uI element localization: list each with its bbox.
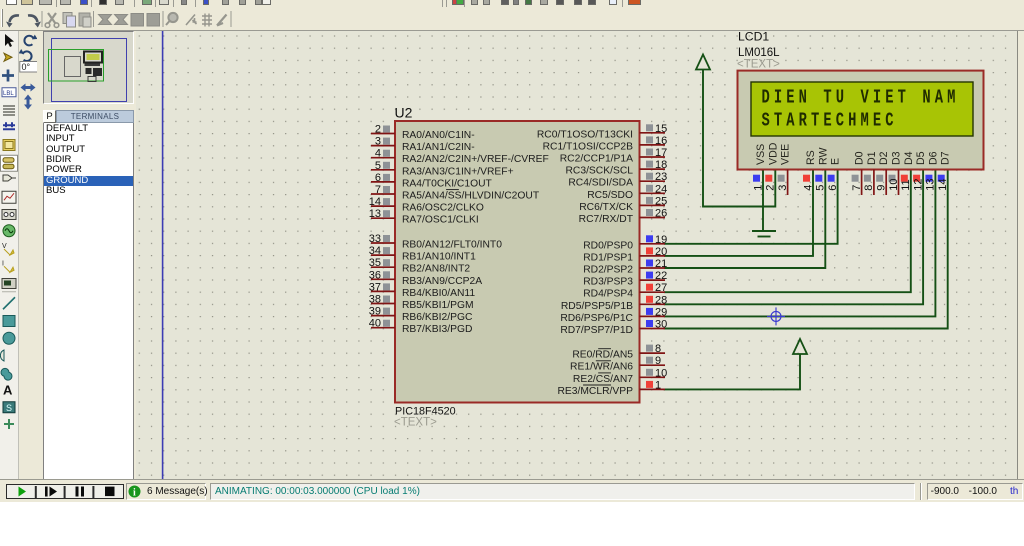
svg-text:1: 1 [752,185,764,191]
svg-text:33: 33 [369,233,381,245]
svg-text:9: 9 [655,355,661,367]
svg-text:LCD1: LCD1 [738,31,769,44]
svg-text:RD4/PSP4: RD4/PSP4 [583,289,633,300]
svg-text:RB7/KBI3/PGD: RB7/KBI3/PGD [402,324,472,335]
svg-text:23: 23 [655,171,667,183]
svg-text:RD0/PSP0: RD0/PSP0 [583,240,633,251]
svg-text:1: 1 [655,379,661,391]
svg-text:RC5/SDO: RC5/SDO [587,190,633,201]
svg-text:I: I [2,260,4,267]
svg-text:RB0/AN12/FLT0/INT0: RB0/AN12/FLT0/INT0 [402,240,502,251]
svg-text:17: 17 [655,147,667,159]
svg-text:RW: RW [817,148,829,165]
svg-text:<TEXT>: <TEXT> [737,59,780,71]
svg-text:LM016L: LM016L [738,47,780,59]
svg-text:30: 30 [655,319,667,331]
svg-text:RE2/CS/AN7: RE2/CS/AN7 [573,374,633,385]
svg-text:22: 22 [655,270,667,282]
svg-text:RB1/AN10/INT1: RB1/AN10/INT1 [402,252,476,263]
svg-text:RA2/AN2/C2IN+/VREF-/CVREF: RA2/AN2/C2IN+/VREF-/CVREF [402,154,549,165]
svg-text:A: A [3,383,13,398]
svg-text:38: 38 [369,294,381,306]
svg-text:34: 34 [369,245,381,257]
svg-text:D4: D4 [903,151,915,165]
svg-text:D0: D0 [854,151,866,165]
svg-text:6: 6 [375,172,381,184]
svg-text:RS: RS [805,150,817,165]
svg-text:RA0/AN0/C1IN-: RA0/AN0/C1IN- [402,130,475,141]
svg-text:RD3/PSP3: RD3/PSP3 [583,277,633,288]
svg-text:6: 6 [827,185,839,191]
svg-text:2: 2 [375,124,381,136]
svg-text:10: 10 [888,179,900,191]
svg-text:28: 28 [655,294,667,306]
svg-text:RE0/RD/AN5: RE0/RD/AN5 [572,350,633,361]
svg-text:14: 14 [369,196,381,208]
svg-text:RC6/TX/CK: RC6/TX/CK [579,202,633,213]
svg-text:15: 15 [655,123,667,135]
svg-text:RD1/PSP1: RD1/PSP1 [583,252,633,263]
svg-text:35: 35 [369,257,381,269]
svg-text:E: E [830,158,842,165]
svg-text:RB2/AN8/INT2: RB2/AN8/INT2 [402,264,470,275]
svg-text:RA5/AN4/SS/HLVDIN/C2OUT: RA5/AN4/SS/HLVDIN/C2OUT [402,191,540,202]
svg-text:36: 36 [369,269,381,281]
svg-text:39: 39 [369,306,381,318]
svg-text:RB6/KBI2/PGC: RB6/KBI2/PGC [402,312,473,323]
svg-text:V: V [2,243,7,250]
svg-text:RD2/PSP2: RD2/PSP2 [583,265,633,276]
svg-text:9: 9 [876,185,888,191]
svg-text:LBL: LBL [3,91,14,97]
svg-text:D7: D7 [940,151,952,165]
svg-text:5: 5 [375,160,381,172]
svg-text:<TEXT>: <TEXT> [394,417,437,429]
svg-text:0°: 0° [22,62,31,72]
svg-text:D5: D5 [915,151,927,165]
svg-text:RA4/T0CKI/C1OUT: RA4/T0CKI/C1OUT [402,178,493,189]
svg-text:U2: U2 [395,105,413,121]
svg-text:RB3/AN9/CCP2A: RB3/AN9/CCP2A [402,276,482,287]
svg-text:VEE: VEE [780,144,792,165]
svg-text:26: 26 [655,208,667,220]
svg-text:4: 4 [802,185,814,191]
svg-text:18: 18 [655,159,667,171]
svg-text:8: 8 [863,185,875,191]
svg-text:RC0/T1OSO/T13CKI: RC0/T1OSO/T13CKI [537,129,633,140]
svg-text:16: 16 [655,135,667,147]
svg-text:7: 7 [375,184,381,196]
svg-text:RC3/SCK/SCL: RC3/SCK/SCL [565,166,633,177]
svg-text:RD6/PSP6/P1C: RD6/PSP6/P1C [560,313,633,324]
svg-text:D2: D2 [878,151,890,165]
svg-text:29: 29 [655,306,667,318]
svg-text:STARTECHMEC: STARTECHMEC [762,111,898,133]
svg-text:24: 24 [655,183,667,195]
svg-text:RE1/WR/AN6: RE1/WR/AN6 [570,362,633,373]
svg-text:RD5/PSP5/P1B: RD5/PSP5/P1B [561,301,633,312]
svg-text:RA6/OSC2/CLKO: RA6/OSC2/CLKO [402,203,484,214]
svg-text:i: i [133,488,136,499]
svg-text:13: 13 [925,179,937,191]
svg-text:D1: D1 [866,151,878,165]
svg-text:14: 14 [937,179,949,191]
svg-text:13: 13 [369,208,381,220]
svg-text:19: 19 [655,234,667,246]
svg-text:3: 3 [375,136,381,148]
svg-text:40: 40 [369,318,381,330]
svg-text:RC7/RX/DT: RC7/RX/DT [579,214,634,225]
svg-text:RC2/CCP1/P1A: RC2/CCP1/P1A [560,154,633,165]
svg-text:20: 20 [655,246,667,258]
svg-text:27: 27 [655,282,667,294]
svg-text:RC4/SDI/SDA: RC4/SDI/SDA [568,178,633,189]
svg-text:4: 4 [375,148,381,160]
svg-text:37: 37 [369,281,381,293]
svg-text:10: 10 [655,367,667,379]
svg-text:DIEN TU VIET NAM: DIEN TU VIET NAM [762,88,960,110]
svg-text:5: 5 [815,185,827,191]
svg-text:VSS: VSS [755,144,767,165]
svg-text:7: 7 [851,185,863,191]
svg-text:RC1/T1OSI/CCP2B: RC1/T1OSI/CCP2B [543,141,634,152]
svg-text:8: 8 [655,343,661,355]
svg-text:21: 21 [655,258,667,270]
svg-text:RE3/MCLR/VPP: RE3/MCLR/VPP [557,386,633,397]
svg-text:3: 3 [777,185,789,191]
svg-text:25: 25 [655,195,667,207]
svg-text:VDD: VDD [767,142,779,165]
svg-text:RA1/AN1/C2IN-: RA1/AN1/C2IN- [402,142,475,153]
svg-text:S: S [6,403,12,413]
svg-text:11: 11 [900,179,912,190]
svg-text:RA7/OSC1/CLKI: RA7/OSC1/CLKI [402,215,479,226]
svg-text:RB4/KBI0/AN11: RB4/KBI0/AN11 [402,288,475,299]
svg-text:RA3/AN3/C1IN+/VREF+: RA3/AN3/C1IN+/VREF+ [402,166,514,177]
svg-text:RB5/KBI1/PGM: RB5/KBI1/PGM [402,300,474,311]
svg-text:D3: D3 [891,151,903,165]
svg-text:2: 2 [765,185,777,191]
svg-text:RD7/PSP7/P1D: RD7/PSP7/P1D [560,325,633,336]
svg-text:12: 12 [912,179,924,191]
svg-text:D6: D6 [927,151,939,165]
